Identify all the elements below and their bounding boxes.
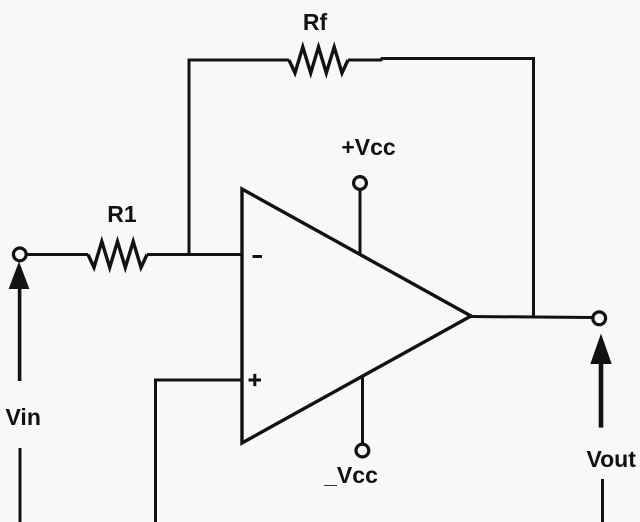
op-amp U1 triangle <box>242 189 471 443</box>
terminal +Vcc <box>354 177 367 190</box>
wire input from Vin to R1 <box>27 253 89 256</box>
label Vout <box>587 446 637 472</box>
wire feedback top horizontal right <box>348 59 535 61</box>
arrow Vout <box>590 334 611 428</box>
label Rf <box>303 9 328 35</box>
wire R1 to inverting input <box>147 253 242 256</box>
wire noninverting input vertical to bottom <box>154 379 157 522</box>
label R1 <box>107 201 137 227</box>
svg-text:Rf: Rf <box>303 9 328 35</box>
svg-text:R1: R1 <box>107 201 137 227</box>
resistor Rf <box>289 47 348 73</box>
wire feedback right vertical <box>532 59 535 318</box>
label Vin <box>6 404 41 430</box>
terminal Vin <box>13 248 26 261</box>
op-amp plus input sign <box>249 374 262 386</box>
label _Vcc <box>323 462 378 488</box>
wire noninverting input horizontal <box>155 379 242 382</box>
arrow Vin <box>9 262 30 382</box>
terminal -Vcc <box>356 444 369 457</box>
wire feedback top horizontal left <box>188 59 290 62</box>
wire -Vcc stub <box>361 376 364 444</box>
wire Vin lower segment <box>19 448 22 522</box>
svg-text:_Vcc: _Vcc <box>323 462 378 488</box>
wire +Vcc stub <box>359 190 362 255</box>
svg-text:Vin: Vin <box>6 404 41 430</box>
terminal Vout <box>593 312 606 325</box>
wire output <box>471 317 593 318</box>
svg-text:Vout: Vout <box>587 446 637 472</box>
wire feedback top-left vertical <box>188 60 191 255</box>
resistor R1 <box>88 242 147 268</box>
op-amp minus input sign <box>253 255 263 258</box>
label +Vcc <box>341 134 396 160</box>
svg-text:+Vcc: +Vcc <box>341 134 396 160</box>
wire Vout lower segment <box>601 479 604 522</box>
